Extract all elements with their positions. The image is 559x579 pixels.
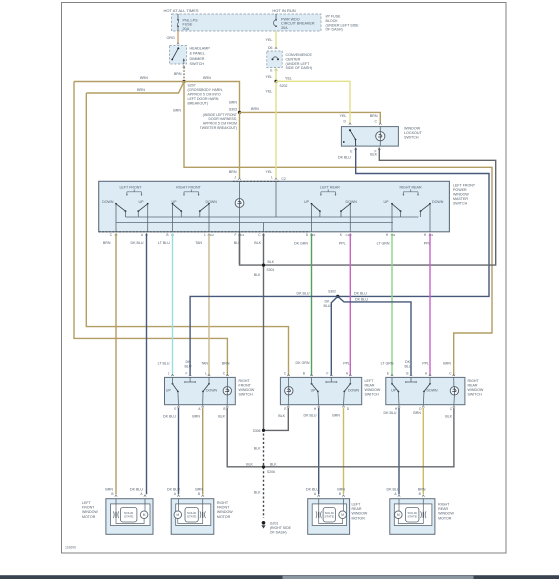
svg-text:F: F — [186, 371, 188, 375]
svg-text:FRONT: FRONT — [82, 506, 95, 510]
svg-text:30A: 30A — [281, 26, 288, 30]
svg-text:UP: UP — [166, 389, 172, 393]
svg-text:BREAKOUT): BREAKOUT) — [188, 102, 208, 106]
svg-text:BRN: BRN — [195, 487, 203, 491]
svg-text:DOWN: DOWN — [206, 200, 218, 204]
svg-text:M: M — [143, 513, 146, 517]
svg-text:E: E — [174, 407, 176, 411]
svg-text:DK BLU: DK BLU — [167, 487, 180, 491]
svg-text:BRN: BRN — [222, 362, 230, 366]
svg-text:BLK: BLK — [370, 153, 377, 157]
svg-text:REAR: REAR — [352, 507, 362, 511]
svg-text:BRN: BRN — [105, 487, 113, 491]
svg-text:WINDOW: WINDOW — [217, 510, 233, 514]
master switch bottom connector — [99, 231, 310, 233]
right front window motor — [171, 499, 214, 535]
svg-text:S301: S301 — [267, 268, 275, 272]
svg-text:RIGHT REAR: RIGHT REAR — [399, 185, 422, 189]
svg-text:S207: S207 — [188, 84, 196, 88]
svg-text:BRN: BRN — [229, 101, 237, 105]
svg-text:MASTER: MASTER — [453, 197, 468, 201]
svg-text:L: L — [271, 176, 273, 180]
svg-text:BLK: BLK — [234, 241, 241, 245]
svg-text:& PANEL: & PANEL — [190, 52, 205, 56]
svg-text:118696: 118696 — [65, 546, 76, 550]
svg-text:B: B — [166, 233, 168, 237]
svg-text:BLU: BLU — [185, 365, 192, 369]
svg-text:DK GRN: DK GRN — [296, 361, 310, 365]
svg-text:DOWN: DOWN — [102, 200, 114, 204]
svg-text:LT GRN: LT GRN — [377, 242, 390, 246]
svg-text:LEFT REAR: LEFT REAR — [320, 185, 340, 189]
wire BLK lockout switch ground loop — [240, 148, 496, 266]
svg-text:MOTOR: MOTOR — [438, 516, 452, 520]
svg-text:WINDOW: WINDOW — [82, 510, 98, 514]
svg-text:DIMMER: DIMMER — [190, 57, 205, 61]
svg-text:DK BLU: DK BLU — [387, 487, 400, 491]
left front window motor — [106, 499, 153, 535]
ground G201 — [262, 521, 266, 525]
svg-text:LT BLU: LT BLU — [158, 241, 170, 245]
wire LT GRN master switch to right rear switch — [391, 234, 393, 376]
svg-text:BRN: BRN — [192, 414, 200, 418]
svg-text:DK BLU: DK BLU — [355, 298, 368, 302]
svg-text:STATE: STATE — [324, 515, 334, 519]
svg-text:I/P FUSE: I/P FUSE — [326, 15, 342, 19]
svg-text:YEL: YEL — [285, 77, 292, 81]
svg-text:UP: UP — [384, 200, 390, 204]
svg-text:REAR: REAR — [365, 383, 375, 387]
svg-text:LOCKOUT: LOCKOUT — [404, 131, 423, 135]
svg-text:DK BLU: DK BLU — [130, 487, 143, 491]
svg-text:S303: S303 — [229, 108, 237, 112]
svg-text:C1: C1 — [346, 233, 350, 237]
svg-text:BLU: BLU — [324, 304, 331, 308]
svg-text:ORG: ORG — [167, 36, 176, 40]
I/P fuse block box — [172, 14, 322, 31]
svg-text:D6: D6 — [268, 46, 273, 50]
scrollbar track — [0, 575, 559, 579]
svg-text:DOWN: DOWN — [206, 389, 218, 393]
svg-text:C2: C2 — [282, 177, 286, 181]
svg-text:BLK: BLK — [268, 260, 275, 264]
wire PPL master switch to left rear switch — [349, 234, 351, 376]
svg-text:RIGHT: RIGHT — [239, 379, 251, 383]
svg-text:BLK: BLK — [254, 491, 261, 495]
svg-text:SWITCH: SWITCH — [404, 136, 419, 140]
master switch internal bus upper — [126, 216, 419, 218]
svg-text:HOT IN RUN: HOT IN RUN — [272, 8, 295, 13]
svg-text:APPROX 5 CM INTO: APPROX 5 CM INTO — [188, 93, 221, 97]
splice S306 — [262, 429, 265, 432]
wire BRN S207 right run to S303 — [184, 82, 240, 113]
svg-text:(RIGHT SIDE: (RIGHT SIDE — [270, 526, 292, 530]
svg-text:CONVENIENCE: CONVENIENCE — [286, 53, 313, 57]
svg-text:WINDOW: WINDOW — [352, 512, 368, 516]
svg-text:FRONT: FRONT — [217, 506, 230, 510]
svg-text:S202: S202 — [280, 84, 288, 88]
svg-text:S306: S306 — [253, 429, 261, 433]
wire YEL S202 down to master switch pin L — [275, 81, 277, 178]
wire BLK master switch main ground drop — [263, 234, 265, 432]
svg-text:B: B — [223, 407, 225, 411]
svg-text:DK BLU: DK BLU — [297, 291, 310, 295]
svg-text:STATE: STATE — [407, 515, 417, 519]
svg-text:YEL: YEL — [266, 170, 273, 174]
svg-text:BLK: BLK — [218, 414, 225, 418]
splice S301 — [262, 264, 265, 267]
splice S206 — [262, 465, 265, 468]
svg-text:M: M — [341, 513, 344, 517]
wire DK BLU master switch to left front motor — [146, 234, 148, 495]
splice S302 — [336, 295, 339, 298]
svg-text:SWITCH: SWITCH — [453, 202, 468, 206]
svg-text:BRN: BRN — [229, 170, 237, 174]
wire DK GRN master switch to left rear switch — [311, 234, 313, 376]
svg-text:UP: UP — [304, 200, 310, 204]
svg-text:TAN: TAN — [201, 362, 208, 366]
svg-text:BLOCK: BLOCK — [326, 19, 339, 23]
svg-text:DOWN: DOWN — [427, 389, 439, 393]
svg-text:UP: UP — [311, 389, 317, 393]
svg-text:LEFT FRONT: LEFT FRONT — [119, 185, 142, 189]
svg-text:B: B — [406, 371, 408, 375]
svg-text:BLK: BLK — [445, 415, 452, 419]
svg-text:BRN: BRN — [103, 241, 111, 245]
svg-text:F: F — [235, 233, 237, 237]
right rear window motor — [390, 499, 435, 535]
svg-text:PPL: PPL — [422, 362, 429, 366]
svg-text:MOTOR: MOTOR — [217, 515, 231, 519]
wire DK BLU S302 to right front switch — [190, 296, 338, 375]
svg-text:BRN: BRN — [140, 76, 148, 80]
wire BRN S207 lower-left branch — [86, 82, 184, 94]
svg-text:E: E — [387, 371, 389, 375]
svg-text:YEL: YEL — [266, 90, 273, 94]
wire BLK ground drop below S306 (dashed) — [263, 434, 265, 519]
wire BRN master switch to left front motor — [115, 234, 117, 495]
svg-text:C1: C1 — [241, 233, 245, 237]
svg-text:WINDOW: WINDOW — [453, 193, 469, 197]
wire BRN right front switch to right front motor — [202, 408, 204, 495]
svg-text:APPROX 5 CM FROM: APPROX 5 CM FROM — [203, 122, 237, 126]
wire BLK left rear switch to splice S306 — [265, 408, 288, 431]
wire BRN S207 left run — [74, 81, 184, 83]
connector at dimmer switch — [177, 43, 179, 45]
svg-text:YEL: YEL — [266, 38, 273, 42]
svg-text:STATE: STATE — [124, 515, 134, 519]
splice S303 — [238, 111, 241, 114]
wire YEL breaker to convenience center — [275, 31, 277, 47]
svg-text:B: B — [303, 371, 305, 375]
svg-text:DK BLU: DK BLU — [354, 292, 367, 296]
svg-text:WINDOW: WINDOW — [438, 512, 454, 516]
diagram frame — [62, 3, 507, 554]
svg-text:REAR: REAR — [438, 507, 448, 511]
svg-text:G201: G201 — [270, 522, 279, 526]
svg-text:RIGHT: RIGHT — [217, 501, 229, 505]
circuit breaker PWR WDO 30A — [275, 14, 277, 19]
svg-text:(INSIDE LEFT FRONT: (INSIDE LEFT FRONT — [203, 113, 237, 117]
svg-text:OF DASH): OF DASH) — [270, 531, 287, 535]
svg-text:DK: DK — [325, 300, 331, 304]
wire BRN dimmer switch to S207 (dashed) — [183, 67, 185, 80]
svg-text:BRN: BRN — [251, 107, 259, 111]
left rear window motor — [308, 499, 350, 535]
wire BLK right front switch ground — [227, 408, 262, 467]
svg-text:BLU: BLU — [405, 365, 412, 369]
wire BRN S303 to lockout switch — [240, 112, 381, 123]
svg-text:UP: UP — [391, 389, 397, 393]
wire DK BLU right front switch to right front motor — [178, 408, 180, 495]
svg-text:LEFT: LEFT — [82, 501, 92, 505]
svg-text:CENTER: CENTER — [286, 57, 301, 61]
wire BRN S207 drop to crossover run — [184, 82, 492, 376]
svg-text:LEFT DOOR HARN: LEFT DOOR HARN — [188, 97, 219, 101]
svg-text:BLK: BLK — [254, 273, 261, 277]
svg-text:F: F — [327, 371, 329, 375]
svg-text:FRONT: FRONT — [239, 383, 252, 387]
svg-text:(UNDER LEFT SIDE: (UNDER LEFT SIDE — [326, 23, 360, 27]
window lockout switch — [349, 123, 351, 125]
wire LT BLU master switch to right front switch — [172, 234, 174, 376]
svg-text:WINDOW: WINDOW — [404, 127, 421, 131]
svg-text:BLK: BLK — [278, 414, 285, 418]
wire DK BLU S302 to right rear switch — [338, 296, 411, 375]
svg-text:PPL: PPL — [339, 242, 346, 246]
connector below dimmer switch — [183, 66, 185, 68]
svg-text:DK BLU: DK BLU — [131, 241, 144, 245]
svg-text:REAR: REAR — [468, 383, 478, 387]
svg-text:YEL: YEL — [266, 75, 273, 79]
svg-text:BRN: BRN — [174, 72, 182, 76]
svg-text:M: M — [176, 513, 179, 517]
wire YEL S202 to lockout switch — [276, 81, 350, 123]
wire BRN second riser to left rear switch illumination — [86, 93, 288, 376]
svg-text:LEFT: LEFT — [365, 379, 375, 383]
svg-text:WINDOW: WINDOW — [468, 388, 484, 392]
wire BRN S303 down to master switch pin J — [239, 112, 241, 178]
svg-text:L: L — [204, 233, 206, 237]
wire DK BLU left rear switch to left rear motor — [318, 408, 320, 495]
splice S207 — [182, 80, 185, 83]
svg-text:DOOR HARNESS,: DOOR HARNESS, — [209, 117, 238, 121]
svg-text:BRN: BRN — [370, 114, 378, 118]
svg-text:SWITCH: SWITCH — [365, 393, 380, 397]
svg-text:LT BLU: LT BLU — [158, 362, 170, 366]
svg-text:OF DASH): OF DASH) — [326, 28, 343, 32]
svg-text:(CROSSBODY HARN,: (CROSSBODY HARN, — [188, 88, 223, 92]
wire YEL convenience center to S202 — [275, 68, 277, 82]
wire TAN master switch to right front switch — [208, 234, 210, 376]
svg-text:BRN: BRN — [418, 487, 426, 491]
svg-text:E: E — [284, 407, 286, 411]
svg-text:SWITCH: SWITCH — [239, 393, 254, 397]
connector below convenience center — [275, 69, 277, 71]
svg-text:RIGHT FRONT: RIGHT FRONT — [176, 185, 201, 189]
svg-text:BLK: BLK — [254, 447, 261, 451]
wire DK BLU lockout switch to S302 — [338, 148, 489, 297]
convenience center — [267, 51, 282, 68]
svg-text:LT GRN: LT GRN — [381, 362, 394, 366]
svg-text:C2: C2 — [210, 233, 214, 237]
svg-text:HEADLAMP: HEADLAMP — [190, 47, 211, 51]
headlamp and panel dimmer switch — [170, 46, 187, 65]
svg-text:B: B — [111, 492, 113, 496]
svg-text:BRN: BRN — [443, 362, 451, 366]
svg-text:DK BLU: DK BLU — [306, 487, 319, 491]
svg-text:TAN: TAN — [195, 241, 202, 245]
svg-text:MOTOR: MOTOR — [352, 516, 366, 520]
svg-text:DOWN: DOWN — [348, 389, 360, 393]
svg-text:TWEETER BREAKOUT): TWEETER BREAKOUT) — [200, 126, 237, 130]
svg-text:RIGHT: RIGHT — [468, 379, 480, 383]
wire BLK right rear switch ground — [265, 408, 454, 467]
svg-text:B: B — [419, 492, 421, 496]
svg-text:DOWN: DOWN — [432, 200, 444, 204]
wire ORG fuse to dimmer switch — [177, 31, 179, 43]
wire PPL master switch to right rear switch — [429, 234, 431, 376]
svg-text:S206: S206 — [267, 470, 275, 474]
svg-text:LEFT FRONT: LEFT FRONT — [453, 183, 476, 187]
svg-text:BLK: BLK — [254, 241, 261, 245]
svg-text:YEL: YEL — [340, 114, 347, 118]
splice S202 — [274, 80, 277, 83]
fuse PNL LPS 20A — [177, 14, 179, 19]
svg-text:DK BLU: DK BLU — [163, 414, 176, 418]
svg-text:DK: DK — [186, 360, 192, 364]
left front power window master switch — [99, 181, 450, 232]
svg-text:BRN: BRN — [337, 487, 345, 491]
svg-text:DOWN: DOWN — [346, 200, 358, 204]
svg-text:DK BLU: DK BLU — [304, 414, 317, 418]
svg-text:S302: S302 — [328, 290, 336, 294]
wire DK BLU right rear switch to right rear motor — [398, 408, 400, 495]
svg-text:HOT AT ALL TIMES: HOT AT ALL TIMES — [163, 8, 198, 13]
svg-text:20A: 20A — [183, 27, 190, 31]
svg-text:B: B — [198, 492, 200, 496]
wire BRN right rear switch to right rear motor — [422, 408, 424, 495]
svg-text:MOTOR: MOTOR — [82, 515, 96, 519]
svg-text:L: L — [205, 371, 207, 375]
svg-text:BRN: BRN — [173, 109, 181, 113]
svg-text:BRN: BRN — [137, 88, 145, 92]
wire BLK master switch pin F to ground junction S301 — [239, 234, 241, 265]
svg-text:DK: DK — [405, 360, 411, 364]
svg-text:B: B — [339, 492, 341, 496]
svg-text:DK GRN: DK GRN — [294, 242, 308, 246]
svg-text:STATE: STATE — [187, 515, 197, 519]
svg-text:BLK: BLK — [246, 462, 253, 466]
svg-text:WINDOW: WINDOW — [239, 388, 255, 392]
svg-text:WINDOW: WINDOW — [365, 388, 381, 392]
svg-text:UP: UP — [139, 200, 145, 204]
svg-text:RIGHT: RIGHT — [438, 503, 450, 507]
wire DK BLU S302 to left rear switch — [331, 296, 337, 375]
svg-text:PPL: PPL — [424, 242, 431, 246]
svg-text:BLK: BLK — [270, 462, 277, 466]
svg-text:SWITCH: SWITCH — [468, 393, 483, 397]
svg-text:BRN: BRN — [413, 411, 421, 415]
svg-text:BRN: BRN — [203, 76, 211, 80]
svg-text:(UNDER LEFT: (UNDER LEFT — [286, 62, 311, 66]
svg-text:PPL: PPL — [343, 362, 350, 366]
wire BRN left rear switch to left rear motor — [343, 408, 345, 495]
svg-text:BRN: BRN — [332, 414, 340, 418]
master switch illumination lamp — [235, 199, 244, 208]
svg-text:DK BLU: DK BLU — [338, 156, 351, 160]
svg-text:POWER: POWER — [453, 188, 467, 192]
wire BRN left riser to right front switch illumination — [74, 82, 227, 376]
svg-text:SWITCH: SWITCH — [190, 62, 205, 66]
master switch internal bus lower — [116, 222, 393, 224]
svg-text:M: M — [397, 513, 400, 517]
svg-text:DK BLU: DK BLU — [384, 411, 397, 415]
svg-text:SIDE OF DASH): SIDE OF DASH) — [286, 66, 313, 70]
scrollbar thumb — [283, 576, 474, 579]
svg-text:LEFT: LEFT — [352, 503, 362, 507]
